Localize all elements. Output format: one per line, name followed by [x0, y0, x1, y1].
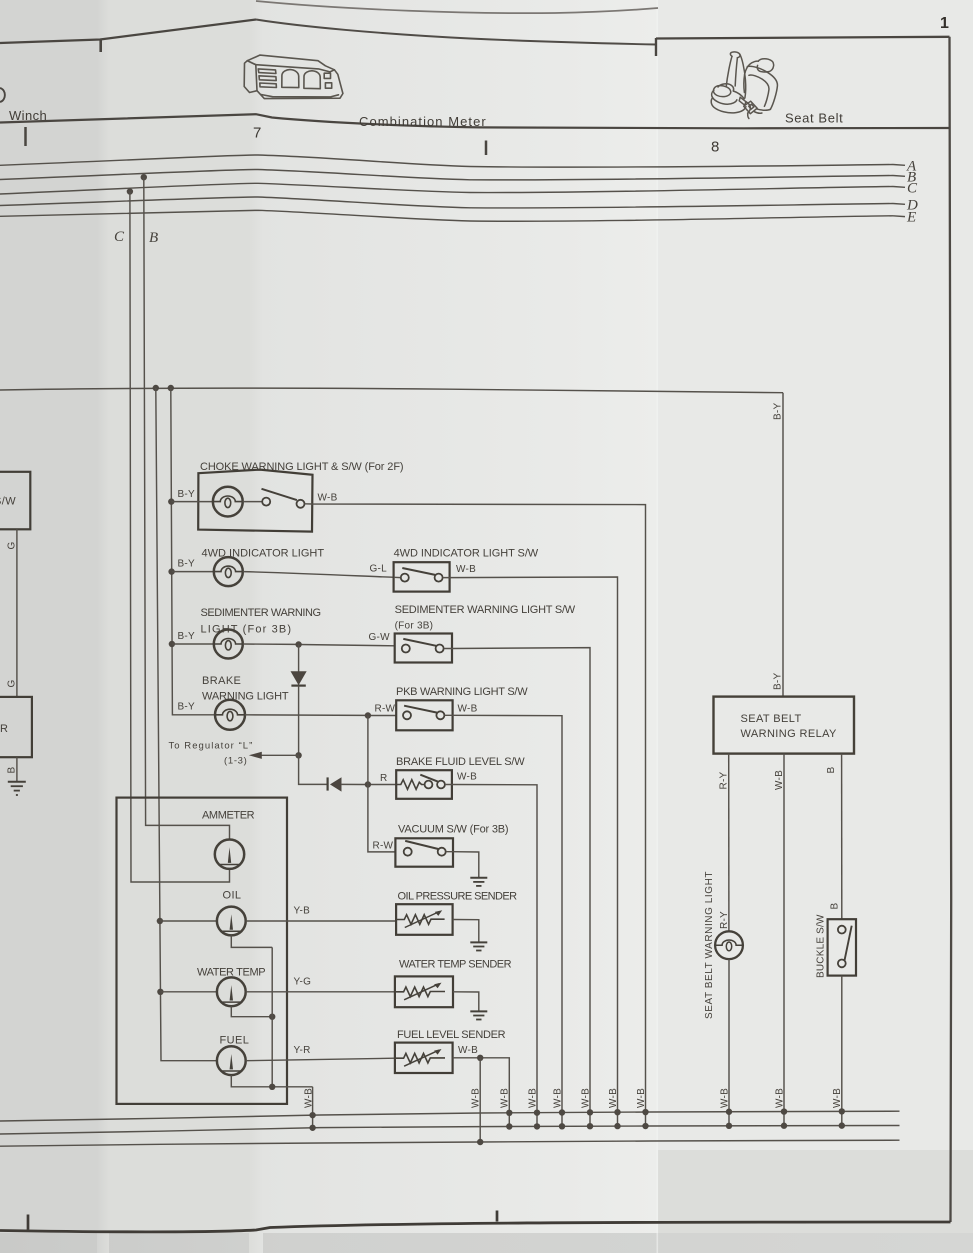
bus junction dots line 2	[309, 1122, 845, 1131]
svg-text:(For 3B): (For 3B)	[395, 621, 434, 632]
junction 4wd row	[168, 568, 174, 574]
wire choke W-B return	[305, 504, 646, 1126]
svg-text:4WD INDICATOR LIGHT S/W: 4WD INDICATOR LIGHT S/W	[394, 548, 539, 560]
svg-text:W-B: W-B	[304, 1088, 315, 1108]
svg-text:B: B	[149, 230, 158, 246]
gauge oil	[217, 907, 246, 936]
wire B-Y to sedimenter lamp	[172, 643, 214, 645]
wire oil gauge to sender	[246, 920, 396, 922]
svg-text:B: B	[7, 767, 18, 774]
combination meter icon	[244, 55, 343, 99]
wire gauges feed vertical	[156, 388, 217, 1061]
lamp seat belt warning	[715, 931, 743, 959]
svg-text:Winch: Winch	[9, 108, 47, 123]
svg-text:4WD INDICATOR LIGHT: 4WD INDICATOR LIGHT	[202, 548, 325, 560]
svg-text:PKB WARNING LIGHT S/W: PKB WARNING LIGHT S/W	[396, 686, 528, 698]
bus line A	[0, 155, 905, 167]
wire choke lamp to switch	[243, 501, 263, 503]
wire diode down to regulator tap	[298, 686, 300, 756]
bus line C	[0, 183, 905, 194]
left edge cut-off circle mark	[0, 88, 5, 102]
svg-text:To Regulator “L”: To Regulator “L”	[169, 741, 253, 752]
svg-text:Y-R: Y-R	[294, 1045, 311, 1056]
tick on top rule at x=100	[99, 40, 102, 53]
wire B vertical to ammeter top	[144, 177, 230, 840]
svg-text:G: G	[7, 679, 18, 687]
switch buckle (contacts and lever)	[838, 926, 852, 968]
brake fluid level switch box	[396, 770, 452, 799]
svg-text:W-B: W-B	[500, 1088, 511, 1108]
svg-text:WARNING LIGHT: WARNING LIGHT	[202, 691, 289, 703]
water temp sender box	[395, 976, 453, 1007]
wire lamps feed vertical	[171, 388, 215, 715]
wire pkb W-B return	[444, 715, 562, 1126]
wire brake lamp to PKB switch	[245, 714, 396, 717]
scan artifact top curve	[256, 1, 658, 13]
svg-text:B: B	[830, 903, 841, 910]
svg-text:W-B: W-B	[608, 1088, 619, 1108]
svg-text:B-Y: B-Y	[773, 403, 784, 421]
wire oil sender to ground	[453, 920, 479, 942]
switch 4wd (contacts and lever)	[394, 568, 443, 582]
junction choke row	[168, 498, 174, 504]
svg-text:OIL: OIL	[223, 890, 242, 902]
svg-text:B: B	[826, 767, 837, 774]
svg-text:W-B: W-B	[636, 1088, 647, 1108]
wire C vertical to ammeter bottom	[130, 192, 230, 883]
ground oil sender	[470, 942, 487, 950]
bus junction dot line 3 (fuel sender)	[477, 1139, 483, 1145]
svg-text:Y-G: Y-G	[294, 977, 312, 988]
bus junction dots line 1	[309, 1108, 845, 1118]
labels W-B at bus (rotated)	[471, 1088, 648, 1108]
wire fuel gauge bottom loop	[231, 1075, 312, 1087]
svg-text:R-Y: R-Y	[719, 911, 730, 929]
wire B left to ground	[16, 757, 18, 781]
wire water gauge to sender	[246, 991, 395, 993]
switch sedimenter (contacts and lever)	[402, 639, 444, 653]
wire R-Y from relay	[728, 754, 730, 932]
junction fuel loop	[269, 1084, 275, 1090]
ground bus line 2	[0, 1126, 900, 1135]
partial box left motor	[0, 697, 32, 757]
wire water gauge bottom loop	[231, 1006, 272, 1017]
svg-text:C: C	[114, 229, 125, 245]
wire G left	[16, 529, 18, 697]
svg-text:W-B: W-B	[528, 1088, 539, 1108]
junction oil row	[157, 918, 163, 924]
svg-text:W-B: W-B	[457, 772, 477, 783]
lamp sedimenter warning	[214, 630, 243, 659]
svg-text:FUEL: FUEL	[220, 1035, 250, 1047]
wire gauge common vertical	[271, 947, 273, 1086]
wire sedimenter lamp to switch	[243, 644, 395, 646]
wire B-Y down to relay	[782, 393, 784, 697]
svg-text:W-B: W-B	[458, 1045, 478, 1056]
wire brake fluid tap down to vacuum	[368, 785, 396, 852]
svg-text:R: R	[380, 773, 387, 784]
wire fuel sender tap to bus 3	[479, 1058, 481, 1142]
wire seat belt lamp to bus	[728, 959, 730, 1126]
wire fuel gauge to sender	[246, 1058, 395, 1061]
lamp 4wd indicator	[214, 557, 243, 586]
ground bus line 3	[0, 1140, 900, 1146]
sedimenter warning light switch box	[395, 634, 452, 663]
svg-text:OR: OR	[0, 723, 8, 735]
diode D1 (down)	[291, 672, 305, 686]
gauge fuel	[217, 1046, 246, 1075]
ammeter cluster box	[117, 798, 288, 1104]
junction gauges feed	[153, 385, 159, 391]
svg-text:B-Y: B-Y	[178, 559, 196, 570]
wire W-B from relay to bus	[783, 754, 785, 1126]
svg-text:W-B: W-B	[553, 1088, 564, 1108]
wire diode D2 to brake fluid switch	[341, 783, 396, 785]
wire water gauge left	[160, 991, 217, 993]
svg-text:FUEL LEVEL SENDER: FUEL LEVEL SENDER	[397, 1029, 506, 1041]
resistor fuel level sender	[395, 1049, 445, 1066]
svg-text:Seat Belt: Seat Belt	[785, 111, 843, 126]
bus line B	[0, 170, 905, 180]
svg-text:1: 1	[940, 15, 949, 32]
header frame top rule	[0, 20, 950, 45]
fuel level sender box	[395, 1043, 453, 1073]
relay seat belt warning	[714, 697, 855, 754]
wire 4wd lamp to switch	[243, 572, 394, 578]
junction sedimenter diode tap	[295, 641, 301, 647]
wire B-Y main horizontal	[0, 388, 783, 393]
4wd indicator light switch box	[394, 562, 450, 591]
svg-text:SEAT BELT WARNING LIGHT: SEAT BELT WARNING LIGHT	[704, 871, 715, 1019]
wire sedimenter W-B return	[444, 648, 590, 1126]
seat belt icon	[711, 52, 777, 119]
switch pkb (contacts and lever)	[403, 706, 444, 720]
svg-text:W-B: W-B	[720, 1088, 731, 1108]
buckle switch box	[828, 919, 856, 975]
junction sedimenter row	[169, 641, 175, 647]
svg-text:OIL PRESSURE SENDER: OIL PRESSURE SENDER	[398, 891, 518, 903]
lamp brake warning	[215, 700, 245, 730]
svg-text:W-B: W-B	[774, 770, 785, 790]
svg-text:7: 7	[253, 125, 261, 142]
svg-text:W-B: W-B	[456, 564, 476, 575]
tick above bottom rule x=28	[27, 1215, 30, 1230]
svg-text:W-B: W-B	[832, 1088, 843, 1108]
wire vacuum to ground	[446, 852, 479, 878]
svg-text:B-Y: B-Y	[178, 489, 196, 500]
junction fuel sender tap	[477, 1055, 483, 1061]
svg-text:B-Y: B-Y	[178, 702, 196, 713]
wire oil gauge left	[160, 920, 217, 922]
arrow to regulator	[249, 752, 299, 759]
right page border	[949, 37, 951, 1222]
tick divider at x=656	[655, 38, 657, 56]
svg-text:8: 8	[711, 139, 719, 156]
ground left	[8, 782, 26, 795]
oil pressure sender box	[396, 904, 453, 935]
svg-text:AMMETER: AMMETER	[202, 810, 255, 822]
svg-text:W-B: W-B	[581, 1088, 592, 1108]
lamp choke warning light	[213, 487, 243, 517]
vacuum switch box	[395, 838, 453, 866]
junction on bus C	[127, 188, 133, 194]
gauge ammeter	[215, 840, 244, 869]
svg-text:S/W: S/W	[0, 496, 16, 508]
wire B-Y to choke lamp	[171, 501, 213, 503]
wire sedimenter tap down to diode	[298, 645, 300, 673]
svg-text:WATER TEMP SENDER: WATER TEMP SENDER	[399, 959, 512, 971]
pkb warning light switch box	[396, 700, 452, 730]
switch brake fluid (resistor, contacts, lever)	[396, 775, 445, 790]
resistor oil pressure sender	[396, 910, 445, 927]
svg-text:BUCKLE S/W: BUCKLE S/W	[816, 914, 827, 978]
header bottom rule	[0, 114, 950, 128]
wire 4wd W-B return	[443, 577, 618, 1126]
svg-text:BRAKE: BRAKE	[202, 675, 241, 687]
diode D2 (left)	[328, 777, 341, 790]
svg-text:(1-3): (1-3)	[224, 756, 247, 767]
junction on bus B	[141, 174, 147, 180]
wire B from relay to buckle	[841, 754, 843, 920]
wire water sender to ground	[453, 992, 479, 1011]
svg-text:VACUUM S/W (For 3B): VACUUM S/W (For 3B)	[398, 824, 509, 836]
tick above bottom rule x=497	[496, 1211, 499, 1222]
switch choke (contacts and lever)	[262, 489, 305, 508]
svg-text:Combination Meter: Combination Meter	[359, 114, 486, 129]
svg-text:G-L: G-L	[370, 564, 388, 575]
svg-text:G-W: G-W	[369, 632, 391, 643]
junction PKB tap	[365, 712, 371, 718]
page bottom rule	[0, 1222, 951, 1232]
wire buckle to bus	[841, 976, 843, 1126]
svg-text:W-B: W-B	[471, 1088, 482, 1108]
svg-text:R-W: R-W	[373, 841, 394, 852]
junction water loop	[269, 1014, 275, 1020]
ground water sender	[470, 1011, 487, 1019]
choke warning light & switch box	[198, 470, 312, 532]
svg-text:R-W: R-W	[375, 704, 396, 715]
svg-text:E: E	[906, 210, 916, 226]
gauge water temp	[217, 977, 246, 1006]
svg-text:C: C	[907, 181, 918, 197]
ground bus line 1	[0, 1111, 900, 1121]
partial box left S/W	[0, 472, 30, 530]
wire oil gauge bottom loop	[231, 935, 272, 947]
junction brake fluid tap	[365, 781, 371, 787]
tick below header rule x=25.5	[24, 127, 27, 146]
wire regulator tap down to diode D2	[299, 755, 328, 784]
svg-text:BRAKE FLUID LEVEL S/W: BRAKE FLUID LEVEL S/W	[396, 756, 525, 768]
wire ammeter W-B down to bus	[312, 1087, 314, 1128]
bus line D	[0, 197, 905, 208]
svg-text:LIGHT (For 3B): LIGHT (For 3B)	[201, 624, 292, 636]
svg-text:SEDIMENTER WARNING: SEDIMENTER WARNING	[201, 607, 322, 619]
bus line E	[0, 210, 905, 221]
wire fuel sender W-B right	[453, 1058, 510, 1126]
svg-text:Y-B: Y-B	[294, 906, 311, 917]
svg-text:W-B: W-B	[775, 1088, 786, 1108]
wire B-Y to 4wd lamp	[172, 571, 214, 573]
svg-text:W-B: W-B	[318, 493, 338, 504]
svg-text:W-B: W-B	[458, 704, 478, 715]
svg-text:R-Y: R-Y	[719, 771, 730, 789]
junction regulator tap	[295, 752, 301, 758]
svg-text:SEAT BELT: SEAT BELT	[741, 713, 802, 725]
switch vacuum (contacts and lever)	[404, 841, 446, 856]
svg-text:B-Y: B-Y	[178, 631, 196, 642]
junction lamps feed	[168, 385, 174, 391]
wire brake fluid W-B return	[445, 785, 537, 1127]
svg-text:WARNING RELAY: WARNING RELAY	[741, 728, 838, 740]
tick below header rule x=486	[485, 141, 488, 156]
resistor water temp sender	[395, 983, 445, 1000]
svg-text:G: G	[7, 541, 18, 549]
svg-text:SEDIMENTER WARNING LIGHT S/W: SEDIMENTER WARNING LIGHT S/W	[395, 604, 576, 616]
ground vacuum	[470, 878, 487, 886]
wire pkb tap to brake fluid tap	[367, 716, 369, 785]
junction water row	[157, 989, 163, 995]
svg-text:B-Y: B-Y	[773, 673, 784, 691]
